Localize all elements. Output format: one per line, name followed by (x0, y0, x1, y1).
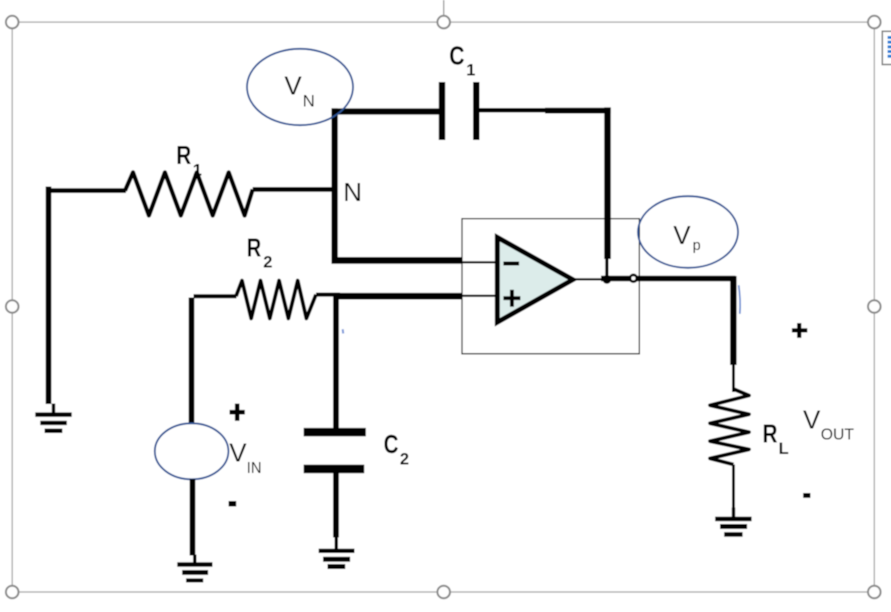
op-amp output lead (573, 278, 633, 280)
resistor R1 (125, 172, 253, 215)
ellipse VP (638, 196, 738, 268)
ground G2 (177, 555, 212, 583)
svg-text:V: V (229, 438, 247, 468)
layout options button (882, 31, 891, 64)
ground G4 (715, 508, 751, 537)
svg-text:1: 1 (466, 62, 475, 80)
minus sign VIN (229, 501, 237, 507)
wire to R1 (46, 188, 126, 193)
handle top-left (6, 16, 19, 29)
wire R2 to plus input (316, 293, 340, 297)
rotation handle stem (443, 0, 445, 16)
wire output corner down (730, 276, 736, 365)
svg-text:V: V (284, 71, 302, 101)
ground G3 (319, 537, 355, 570)
wire non-inverting input (334, 293, 463, 300)
capacitor C1 left plate (439, 82, 445, 140)
resistor RL (710, 389, 749, 465)
svg-text:C: C (449, 43, 464, 71)
capacitor C1 right plate (473, 82, 479, 140)
ground G1 (35, 404, 71, 434)
node N vertical wire (331, 108, 337, 263)
wire N top to C1 (332, 108, 440, 114)
op-amp minus pin mark (503, 262, 519, 266)
wire VIN top (189, 298, 195, 425)
svg-text:N: N (343, 177, 362, 207)
wire RL top thin (732, 365, 735, 392)
svg-text:p: p (693, 238, 701, 254)
wire C2 top (333, 296, 339, 429)
source VIN ellipse (155, 423, 229, 479)
handle right-middle (868, 300, 881, 313)
wire output horizontal (601, 276, 736, 281)
handle bottom-right (868, 586, 881, 599)
handle top-middle (437, 16, 450, 29)
wire C1 to output corner (479, 108, 549, 112)
svg-text:2: 2 (400, 451, 409, 469)
handle bottom-left (6, 586, 19, 599)
resistor R2 (236, 281, 316, 319)
op-amp U1 group box (462, 219, 639, 354)
svg-text:2: 2 (263, 254, 272, 272)
svg-text:V: V (803, 405, 821, 435)
wire thick segment to corner (545, 108, 611, 114)
svg-text:R: R (763, 421, 778, 449)
ink mark blue arc near RL (739, 285, 740, 314)
handle top-right (868, 16, 881, 29)
op-amp triangle (497, 237, 573, 322)
wire left vertical (46, 187, 52, 405)
op-amp plus pin mark (503, 290, 520, 307)
wire VIN bottom (190, 479, 196, 556)
junction ring (630, 275, 637, 282)
minus sign VOUT (803, 493, 810, 498)
wire C2 bottom (333, 473, 339, 538)
handle bottom-middle (437, 586, 450, 599)
op-amp non-inverting input lead (462, 295, 498, 297)
wire R1 to node N (253, 187, 337, 192)
ellipse VN (247, 49, 353, 125)
capacitor C2 top plate (304, 428, 366, 436)
svg-text:IN: IN (247, 460, 262, 477)
ink mark small blue tick (342, 329, 345, 333)
wire RL bottom thin (732, 465, 735, 509)
handle left-middle (6, 300, 19, 313)
svg-text:R: R (247, 235, 262, 263)
svg-text:N: N (303, 91, 315, 110)
wire C1 corner down to output (604, 107, 611, 259)
svg-text:C: C (384, 431, 399, 459)
plus sign VIN (230, 404, 245, 421)
svg-text:1: 1 (193, 161, 202, 179)
op-amp inverting input lead (462, 261, 498, 263)
junction dot (603, 275, 612, 284)
svg-text:V: V (673, 220, 691, 250)
wire thin into junction (605, 258, 608, 276)
plus sign VOUT (792, 323, 807, 338)
wire inverting input (332, 257, 463, 264)
svg-text:OUT: OUT (821, 426, 854, 443)
capacitor C2 bottom plate (304, 465, 365, 474)
svg-text:R: R (176, 142, 191, 170)
wire to R2 (194, 294, 237, 298)
svg-text:L: L (779, 440, 789, 458)
